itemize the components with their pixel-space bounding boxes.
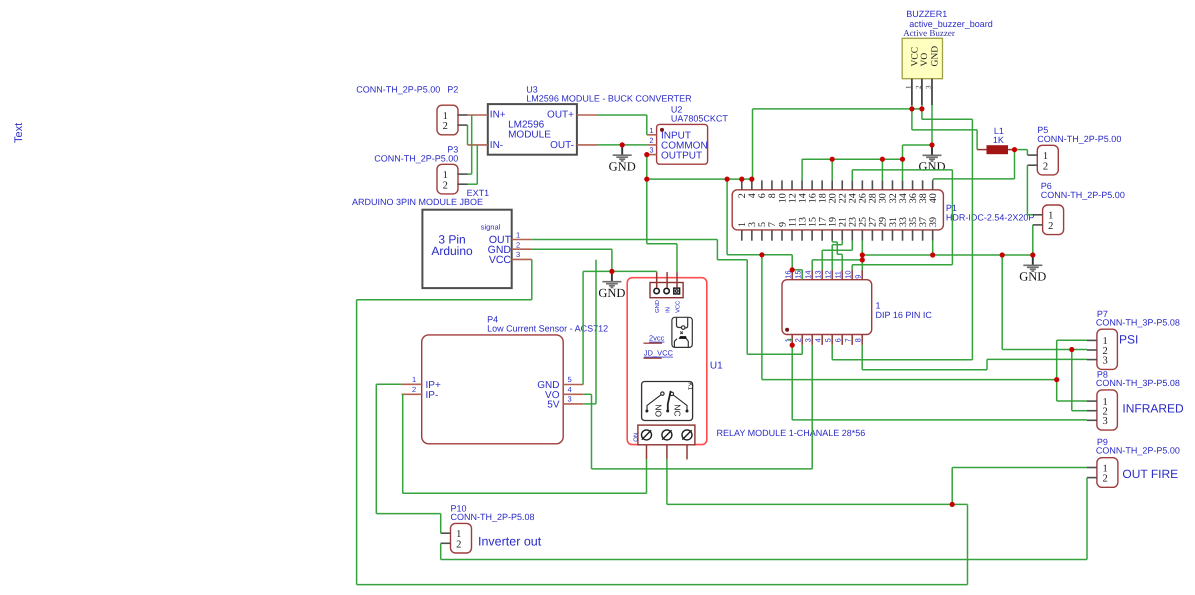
svg-text:5: 5 bbox=[568, 375, 572, 384]
relay input header box bbox=[650, 283, 683, 298]
svg-text:GND: GND bbox=[1019, 269, 1046, 283]
svg-text:JD_VCC: JD_VCC bbox=[644, 349, 674, 358]
junction at 727.1,179.1 bbox=[725, 177, 730, 182]
wire header pin24 to DIP pin10 bbox=[851, 170, 853, 181]
svg-text:IN: IN bbox=[665, 307, 671, 313]
junction at 1032.8,255.0 bbox=[1030, 252, 1035, 257]
P2 pin stubs bbox=[457, 114, 467, 116]
svg-text:IN-: IN- bbox=[490, 140, 503, 151]
svg-text:2: 2 bbox=[915, 85, 923, 89]
svg-text:1: 1 bbox=[443, 111, 448, 122]
svg-text:VCC: VCC bbox=[489, 254, 512, 266]
svg-text:1: 1 bbox=[905, 85, 913, 89]
wire L1 to P5.1 bbox=[1015, 149, 1028, 151]
svg-text:1: 1 bbox=[443, 170, 448, 181]
svg-text:1: 1 bbox=[649, 126, 653, 135]
svg-text:11: 11 bbox=[833, 271, 842, 279]
svg-text:signal: signal bbox=[481, 223, 501, 232]
junction at 902.5,159.2 bbox=[900, 157, 905, 162]
relay terminal block bbox=[638, 425, 695, 445]
svg-text:Text: Text bbox=[13, 123, 25, 143]
P5 pin stubs bbox=[1027, 154, 1037, 156]
svg-text:OUTPUT: OUTPUT bbox=[661, 151, 702, 162]
wire 5V net from U2 OUTPUT bbox=[646, 155, 648, 244]
connector P3 CONN-TH_2P-P5.00 bbox=[437, 164, 458, 194]
svg-text:1: 1 bbox=[1043, 151, 1048, 162]
EXT1 pin stubs bbox=[512, 239, 532, 241]
svg-text:NC: NC bbox=[672, 404, 682, 416]
junction at 751.8,179.1 bbox=[749, 177, 754, 182]
svg-text:GND: GND bbox=[930, 46, 940, 67]
wire P4 5V stub net bbox=[583, 403, 596, 405]
svg-text:2: 2 bbox=[443, 121, 448, 132]
svg-text:5V: 5V bbox=[547, 400, 560, 411]
svg-text:4: 4 bbox=[568, 385, 572, 394]
svg-text:2: 2 bbox=[443, 180, 448, 191]
regulator U2 UA7805CKCT bbox=[657, 124, 708, 164]
svg-text:NO: NO bbox=[632, 433, 639, 442]
wire P4 IP- to relay NO terminal bbox=[402, 394, 404, 493]
svg-text:6: 6 bbox=[833, 338, 842, 342]
wire header pin19 to DIP pin11 bbox=[831, 241, 833, 242]
svg-text:1: 1 bbox=[1102, 463, 1107, 474]
P4 pin stubs bbox=[402, 383, 422, 385]
wire net to DIP pin16/15 bbox=[726, 179, 728, 255]
svg-text:5: 5 bbox=[823, 338, 832, 342]
svg-text:8: 8 bbox=[853, 338, 862, 342]
svg-text:INFRARED: INFRARED bbox=[1122, 401, 1184, 415]
junction at 1002.2,255.0 bbox=[1000, 252, 1005, 257]
svg-text:Low Current Sensor - ACS712: Low Current Sensor - ACS712 bbox=[487, 323, 608, 333]
svg-text:Inverter out: Inverter out bbox=[478, 535, 542, 549]
wire DIP pin1 to P8.3 bbox=[791, 345, 793, 420]
inductor L1 1K bbox=[977, 149, 986, 151]
wire buzzer VO to DIP pin5 bbox=[921, 109, 923, 119]
svg-text:2: 2 bbox=[1102, 474, 1107, 485]
wire DIP pin8 to P7.3 bbox=[861, 345, 863, 370]
junction at 646.8,154.6 bbox=[644, 152, 649, 157]
junction at 911.9,108.9 bbox=[909, 106, 914, 111]
svg-text:VCC: VCC bbox=[910, 47, 920, 67]
sensor P4 Low Current Sensor ACS712 bbox=[422, 335, 564, 444]
svg-text:CONN-TH_2P-P5.08: CONN-TH_2P-P5.08 bbox=[451, 512, 535, 522]
svg-text:12: 12 bbox=[823, 270, 832, 278]
wire P10.2 to P9.2 bbox=[440, 543, 442, 559]
svg-text:OUT FIRE: OUT FIRE bbox=[1122, 467, 1178, 481]
svg-text:CONN-TH_3P-P5.08: CONN-TH_3P-P5.08 bbox=[1096, 378, 1180, 388]
svg-text:3: 3 bbox=[803, 338, 812, 342]
svg-text:IP-: IP- bbox=[426, 390, 439, 401]
svg-text:13: 13 bbox=[813, 270, 822, 278]
svg-text:14: 14 bbox=[803, 270, 812, 278]
wire DIP16 net down to P7/P8 pin1 bbox=[761, 255, 763, 380]
svg-text:CONN-TH_2P-P5.00: CONN-TH_2P-P5.00 bbox=[356, 85, 440, 95]
wire P5.2 to P6.1 bbox=[1026, 165, 1028, 215]
svg-text:OUT-: OUT- bbox=[550, 140, 574, 151]
junction at 792.2,345.1 bbox=[790, 343, 795, 348]
svg-text:Active Buzzer: Active Buzzer bbox=[903, 28, 955, 38]
wire P3.2 to U3 IN- bbox=[468, 183, 478, 185]
svg-text:BUZZER1: BUZZER1 bbox=[906, 9, 947, 19]
svg-text:P2: P2 bbox=[447, 85, 458, 95]
relay contacts bbox=[647, 391, 687, 411]
junction at 1056.7,379.6 bbox=[1054, 377, 1059, 382]
wire L1 to header pin40 bbox=[1014, 150, 1016, 179]
svg-text:2: 2 bbox=[1048, 221, 1053, 232]
connector P6 CONN-TH_2P-P5.00 bbox=[1043, 205, 1064, 235]
svg-text:1K: 1K bbox=[993, 135, 1004, 145]
wire GND bus W_C bbox=[862, 254, 1033, 256]
pin-1 marker dot at 662.0,129.9 bbox=[660, 128, 664, 132]
wire Arduino OUT to DIP pin2 bbox=[532, 239, 718, 241]
wire U2 OUTPUT to relay VCC bbox=[647, 243, 677, 245]
wire P2.2 to U3 IN- bbox=[467, 125, 469, 145]
svg-text:2: 2 bbox=[793, 338, 802, 342]
wire Arduino GND net bbox=[532, 248, 612, 250]
module U1 relay bbox=[627, 278, 707, 445]
svg-text:CONN-TH_2P-P5.00: CONN-TH_2P-P5.00 bbox=[1041, 190, 1125, 200]
junction at 952.2,504.4 bbox=[950, 502, 955, 507]
svg-text:UA7805CKCT: UA7805CKCT bbox=[671, 114, 729, 124]
junction at 862.3,255.0 bbox=[860, 252, 865, 257]
svg-text:3: 3 bbox=[649, 146, 653, 155]
svg-text:7: 7 bbox=[843, 338, 852, 342]
relay input pin stubs bbox=[656, 272, 658, 288]
svg-text:RELAY MODULE 1-CHANALE 28*56: RELAY MODULE 1-CHANALE 28*56 bbox=[717, 428, 866, 438]
relay contact box K1 bbox=[642, 382, 693, 421]
junction at 622.2,144.9 bbox=[620, 142, 625, 147]
junction at 1071.8,349.5 bbox=[1069, 347, 1074, 352]
junction at 862.3,259.9 bbox=[860, 257, 865, 262]
svg-text:2: 2 bbox=[412, 385, 416, 394]
svg-text:CONN-TH_2P-P5.00: CONN-TH_2P-P5.00 bbox=[374, 153, 458, 163]
wire header pin25 to DIP pin9 bbox=[861, 241, 863, 270]
svg-text:10: 10 bbox=[843, 270, 852, 278]
junction at 741.8,179.1 bbox=[739, 177, 744, 182]
IC DIP 16 PIN bbox=[782, 280, 872, 335]
wire 5V up to buzzer VCC bbox=[752, 109, 754, 179]
svg-text:3: 3 bbox=[516, 250, 520, 259]
wire header pin39 to GND bus bbox=[932, 241, 934, 255]
connector P10 CONN-TH_2P-P5.08 bbox=[451, 523, 472, 553]
relay input pins bbox=[654, 288, 659, 293]
svg-text:3: 3 bbox=[1102, 355, 1107, 366]
svg-text:GND: GND bbox=[654, 300, 661, 313]
ground symbol near buzzer bbox=[918, 145, 945, 173]
wire header pin23 to DIP pin13 bbox=[851, 241, 853, 251]
svg-text:IN+: IN+ bbox=[490, 110, 506, 121]
P1 pin stubs and numbers bbox=[741, 180, 743, 189]
module U3 LM2596 buck converter bbox=[488, 104, 577, 155]
U3 pin stubs bbox=[468, 114, 488, 116]
wire relay COM terminal to net bbox=[666, 459, 668, 504]
svg-text:OUT+: OUT+ bbox=[547, 110, 574, 121]
junction at 832.2,159.2 bbox=[830, 157, 835, 162]
relay terminal stubs bbox=[646, 445, 648, 459]
pin-1 marker dot at 787.1,329.8 bbox=[785, 328, 789, 332]
junction at 921.9,108.9 bbox=[919, 106, 924, 111]
junction at 792.2,269.8 bbox=[790, 267, 795, 272]
P3 pin stubs bbox=[457, 173, 467, 175]
wire P2.1 to P3.1 bbox=[471, 115, 473, 174]
junction at 932.7,255.0 bbox=[930, 252, 935, 257]
svg-text:LM2596 MODULE - BUCK CONVERTER: LM2596 MODULE - BUCK CONVERTER bbox=[526, 94, 692, 104]
svg-text:1: 1 bbox=[876, 301, 881, 311]
svg-text:CONN-TH_2P-P5.00: CONN-TH_2P-P5.00 bbox=[1037, 134, 1121, 144]
junction at 611.9,271.4 bbox=[609, 269, 614, 274]
svg-text:1: 1 bbox=[456, 529, 461, 540]
wire W_B DIP pin14 bbox=[812, 259, 862, 261]
svg-text:2: 2 bbox=[649, 136, 653, 145]
svg-text:U1: U1 bbox=[710, 361, 723, 372]
wire P6.2 to gnd bbox=[1032, 225, 1034, 255]
svg-text:39: 39 bbox=[928, 217, 939, 227]
connector P5 CONN-TH_2P-P5.00 bbox=[1037, 145, 1058, 175]
junction at 646.8,179.1 bbox=[644, 177, 649, 182]
wire P4 IP+ to P10.1 bbox=[376, 383, 401, 385]
svg-text:1: 1 bbox=[412, 375, 416, 384]
module EXT1 Arduino 3-pin bbox=[422, 210, 511, 288]
svg-text:DIP 16 PIN IC: DIP 16 PIN IC bbox=[876, 310, 933, 320]
svg-text:1: 1 bbox=[516, 231, 520, 240]
buzzer pin stubs bbox=[911, 79, 913, 105]
connector P7 CONN-TH_3P-P5.08 bbox=[1097, 329, 1118, 369]
svg-text:VCC: VCC bbox=[674, 301, 681, 313]
svg-text:3: 3 bbox=[1102, 416, 1107, 427]
U2 pin stubs bbox=[647, 134, 657, 136]
P6 pin stubs bbox=[1033, 214, 1043, 216]
wire header pin21 to DIP pin12 bbox=[841, 241, 843, 245]
svg-text:PSI: PSI bbox=[1119, 333, 1138, 347]
header P1 HDR-IDC-2.54-2X20P bbox=[732, 190, 943, 230]
connector P9 CONN-TH_2P-P5.00 bbox=[1097, 458, 1118, 488]
wire U3 OUT+ to U2 INPUT bbox=[597, 114, 647, 116]
junction at 882.4,159.2 bbox=[880, 157, 885, 162]
connector P2 CONN-TH_2P-P5.00 bbox=[437, 105, 458, 135]
svg-text:3: 3 bbox=[925, 85, 933, 89]
connector P8 CONN-TH_3P-P5.08 bbox=[1097, 390, 1118, 430]
svg-text:GND: GND bbox=[918, 159, 945, 173]
wire relay GND stub bbox=[656, 270, 658, 273]
svg-text:15: 15 bbox=[793, 270, 802, 278]
wire buzzer VCC to L1 bbox=[911, 109, 913, 130]
svg-text:1: 1 bbox=[1048, 211, 1053, 222]
ground symbol below U3 bbox=[609, 145, 636, 173]
svg-text:CONN-TH_3P-P5.08: CONN-TH_3P-P5.08 bbox=[1096, 318, 1180, 328]
svg-text:GND: GND bbox=[598, 286, 625, 300]
wire U3 OUT- to U2 COMMON bbox=[597, 144, 647, 146]
svg-text:VO: VO bbox=[920, 53, 930, 67]
svg-text:9: 9 bbox=[853, 275, 862, 279]
svg-text:ARDUINO 3PIN MODULE JBOE: ARDUINO 3PIN MODULE JBOE bbox=[352, 197, 483, 207]
DIP pin stubs and numbers bbox=[791, 270, 793, 280]
svg-text:HDR-IDC-2.54-2X20P: HDR-IDC-2.54-2X20P bbox=[946, 212, 1035, 222]
svg-text:2: 2 bbox=[1043, 161, 1048, 172]
ground symbol right of header / P6 bbox=[1019, 255, 1046, 283]
svg-text:Arduino: Arduino bbox=[431, 244, 473, 258]
svg-text:3: 3 bbox=[568, 395, 572, 404]
wire Arduino VCC net to bottom bus bbox=[531, 259, 533, 299]
wire GND bus to header pins 14 20 30 34 bbox=[802, 158, 902, 160]
svg-text:K1: K1 bbox=[686, 382, 693, 390]
svg-text:CONN-TH_2P-P5.00: CONN-TH_2P-P5.00 bbox=[1096, 445, 1180, 455]
wire P4 VO to DIP pin3 bbox=[583, 393, 591, 395]
svg-text:4: 4 bbox=[813, 338, 822, 342]
junction at 1014.5,149.6 bbox=[1012, 147, 1017, 152]
relay optocoupler/transistor icon bbox=[672, 317, 692, 347]
svg-text:MODULE: MODULE bbox=[508, 129, 551, 140]
relay screw terminals bbox=[642, 430, 652, 440]
svg-text:NO: NO bbox=[653, 404, 663, 417]
junction at 761.9,254.8 bbox=[759, 252, 764, 257]
buzzer BUZZER1 active_buzzer_board bbox=[902, 38, 942, 78]
svg-text:2vcc: 2vcc bbox=[649, 334, 665, 343]
junction at 932.0,145.0 bbox=[929, 142, 934, 147]
ground symbol below Arduino bbox=[598, 271, 625, 299]
svg-text:2: 2 bbox=[516, 240, 520, 249]
svg-text:GND: GND bbox=[609, 159, 636, 173]
wire GND bus to P7.2 P8.2 bbox=[1001, 255, 1003, 350]
svg-text:40: 40 bbox=[928, 193, 939, 203]
svg-text:2: 2 bbox=[456, 539, 461, 550]
